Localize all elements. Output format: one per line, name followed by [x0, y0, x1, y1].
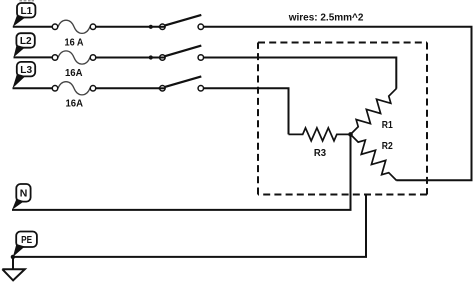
svg-text:R2: R2 — [382, 141, 393, 152]
svg-text:PE: PE — [21, 234, 32, 246]
svg-text:16 A: 16 A — [65, 37, 84, 48]
svg-text:wires: 2.5mm^2: wires: 2.5mm^2 — [288, 13, 364, 24]
svg-text:R3: R3 — [314, 148, 327, 159]
svg-text:R1: R1 — [382, 120, 393, 131]
svg-text:L3: L3 — [20, 64, 32, 76]
svg-text:L1: L1 — [21, 5, 33, 17]
svg-text:N: N — [20, 188, 28, 200]
svg-text:16A: 16A — [66, 98, 84, 109]
svg-text:L2: L2 — [20, 35, 32, 47]
svg-text:16A: 16A — [65, 68, 83, 79]
